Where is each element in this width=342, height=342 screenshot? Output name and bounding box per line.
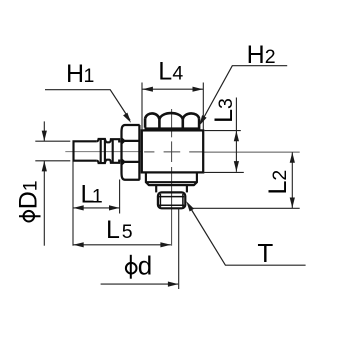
leader T [188,204,306,265]
svg-text:L: L [264,181,292,195]
tube stem (barb plug) [74,141,97,160]
phi symbol of phi-d [126,255,137,279]
svg-text:T: T [257,238,273,268]
svg-text:H: H [247,41,265,69]
barb profile upper/lower [97,139,121,163]
svg-text:1: 1 [84,65,95,87]
dimension L4 [142,83,203,131]
horizontal centerline [65,151,142,153]
svg-text:4: 4 [172,63,183,85]
phi symbol of phiD1 [19,211,41,222]
svg-text:3: 3 [215,98,237,109]
dimension L2 [191,152,300,208]
svg-text:1: 1 [20,180,42,191]
neck [156,185,187,192]
top hex nut facets [145,113,199,128]
flange below body [146,172,197,185]
centerline extension right (L2 top reference) [203,151,300,153]
svg-text:1: 1 [92,186,103,208]
svg-text:2: 2 [265,46,276,68]
svg-text:L: L [210,109,238,123]
svg-text:5: 5 [122,221,133,243]
vertical centerline [171,109,173,246]
horizontal centerline dashes in body [144,151,203,153]
dimension L1 [73,161,120,246]
dimension phiD1 [35,121,70,245]
svg-text:D: D [15,191,43,209]
threaded stud [158,192,185,208]
svg-text:L: L [158,58,172,86]
dimension L5 [73,244,171,246]
svg-text:H: H [66,60,84,88]
svg-text:L: L [106,216,120,244]
svg-text:d: d [138,251,152,281]
dimension L3 [203,98,244,173]
dimension phi-d [101,209,179,290]
leader H1 [45,90,130,120]
svg-text:2: 2 [269,170,291,181]
hex nut side view [122,125,140,180]
top hex nut washer band [145,127,201,131]
leader H2 [201,66,288,124]
body block [142,130,203,172]
hex facet notches [122,138,126,144]
